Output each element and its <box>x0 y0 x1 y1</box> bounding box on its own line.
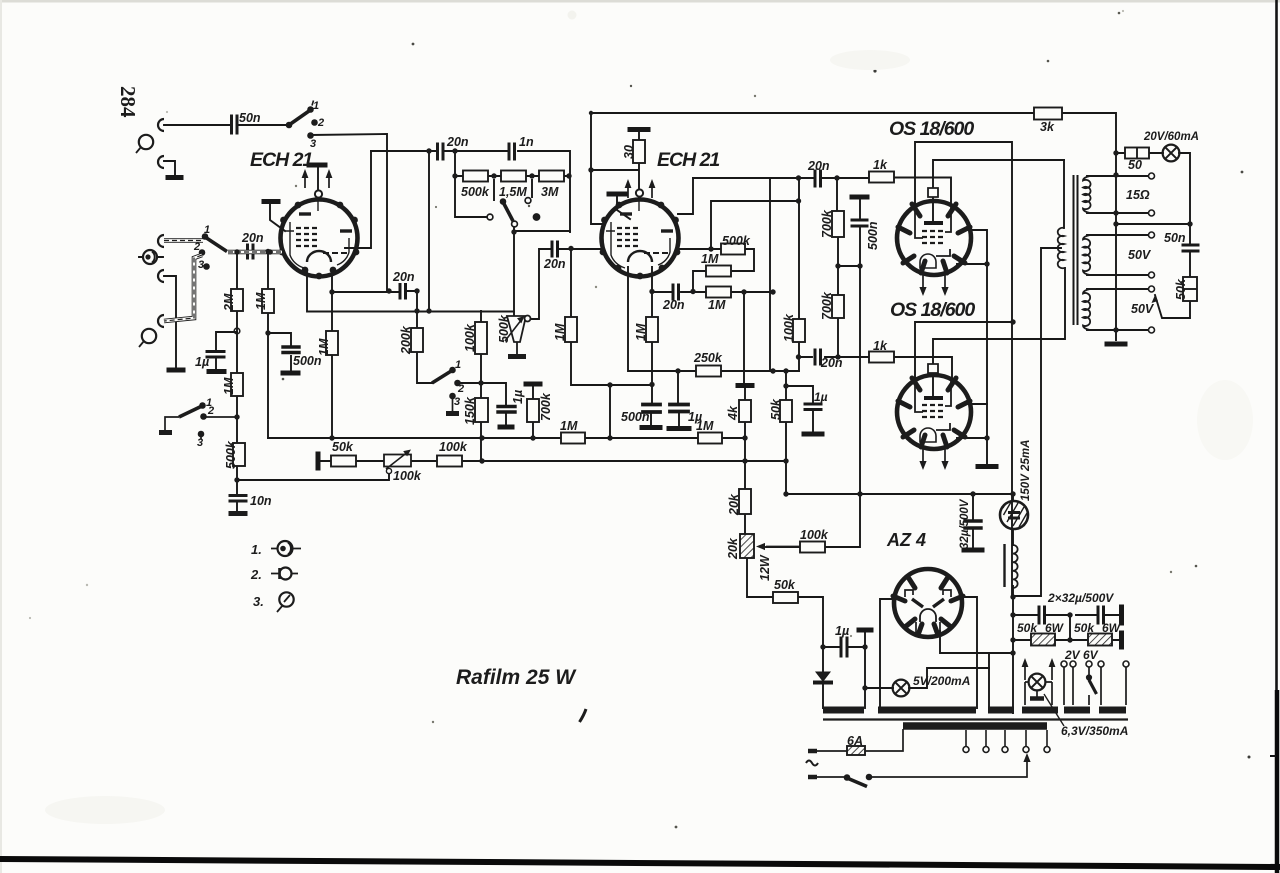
switch lower-left: arm <box>179 406 202 417</box>
transformer primary winding <box>1058 228 1064 268</box>
resistor 700k no2 <box>832 295 844 318</box>
svg-text:284: 284 <box>116 86 140 118</box>
wire x770 drop <box>769 178 771 371</box>
resistor 1M h2 <box>698 433 722 444</box>
tube ECH21 no2 pins <box>600 202 681 280</box>
svg-text:50: 50 <box>1128 158 1142 172</box>
wire x610 link and 1M x571 column <box>571 249 652 438</box>
legend symbol 3 lamp-jack <box>279 592 293 606</box>
node input column x237: 2M 1M 500k 10n chain <box>236 252 238 512</box>
junctions bias line y494 <box>783 491 788 496</box>
tube ECH21 no1 pins <box>279 202 360 280</box>
resistor 1M x652 <box>646 317 658 342</box>
svg-text:1,5M: 1,5M <box>499 185 527 199</box>
label AC tilde <box>806 761 818 766</box>
capacitor 20n-2 plates <box>815 350 821 364</box>
fuse 6A <box>847 746 865 755</box>
svg-text:30: 30 <box>622 145 636 159</box>
svg-text:20n: 20n <box>820 356 843 370</box>
svg-text:32µ/500V: 32µ/500V <box>959 498 971 549</box>
capacitor 50n top-left plates <box>232 116 238 133</box>
svg-text:1M: 1M <box>553 323 567 341</box>
ground jack3b <box>169 368 183 373</box>
resistor 1M x237 <box>231 373 243 396</box>
svg-text:6V: 6V <box>1083 648 1099 662</box>
wire OS2 right pins <box>957 404 987 438</box>
mains transformer winding bar <box>903 722 1047 730</box>
svg-text:6,3V/350mA: 6,3V/350mA <box>1061 724 1128 738</box>
junctions rectifier filament <box>820 644 825 649</box>
svg-text:50k: 50k <box>1074 621 1095 635</box>
wire AZ4 left plate drop <box>880 599 894 708</box>
svg-text:100k: 100k <box>393 469 422 483</box>
wire pickup stubs <box>139 256 163 258</box>
resistor 700k mid <box>527 399 539 422</box>
svg-text:20V/60mA: 20V/60mA <box>1143 131 1199 143</box>
ground 500k pot <box>508 354 526 359</box>
svg-text:250k: 250k <box>693 351 723 365</box>
wire switch box bottom y232 <box>514 227 570 316</box>
wire 4k to 20k chain <box>745 422 823 708</box>
tube AZ4 interior <box>905 590 951 633</box>
wire B+ choke column <box>1012 494 1014 713</box>
svg-text:2×32µ/500V: 2×32µ/500V <box>1047 591 1114 605</box>
resistor 500k ech2 <box>721 244 745 255</box>
resistor 1M cathode ech1 <box>326 331 338 355</box>
capacitor 1u-2 plates <box>670 405 688 412</box>
resistor 3M <box>539 171 564 182</box>
wire y292 row 20n-3 1M <box>652 291 773 293</box>
wire 100k-h row y547 <box>766 546 800 548</box>
resistor 100k x799 <box>793 319 805 342</box>
resistor 50 two-section <box>1125 148 1149 159</box>
wire x838 column 700k pair <box>837 178 838 357</box>
svg-text:2V: 2V <box>1064 648 1081 662</box>
wire OS2 grid 1k row handled above; primary lead <box>1063 160 1065 228</box>
wire row y438 left <box>268 437 745 439</box>
svg-text:3: 3 <box>198 259 204 271</box>
tube ECH21 no1 envelope <box>281 200 358 277</box>
wire x481 column 100k 150k <box>480 311 482 461</box>
svg-text:1µ: 1µ <box>835 624 849 638</box>
tube OS18 no1 interior <box>915 205 951 268</box>
svg-text:1M: 1M <box>701 252 719 266</box>
diode bar <box>815 681 831 685</box>
transformer core <box>1074 176 1078 324</box>
svg-text:1: 1 <box>204 224 210 236</box>
wire jack3b to ground lower <box>164 276 176 367</box>
svg-text:Rafilm 25 W: Rafilm 25 W <box>456 666 577 689</box>
lamp 6.3V/350mA <box>1029 674 1046 691</box>
wire ECH2 grid lead <box>617 196 630 219</box>
ballast resistor hatched circle <box>1000 501 1028 529</box>
wire ECH2 plate x693 to row y178 <box>678 178 693 214</box>
resistor 100k h mid <box>800 542 825 553</box>
svg-text:2: 2 <box>457 383 464 395</box>
wire heater terminals verticals <box>1064 667 1126 705</box>
wire ECH2 500k row y249 <box>678 249 754 292</box>
svg-text:OS 18/600: OS 18/600 <box>890 299 975 321</box>
terminal bar ECH1 grid left <box>264 199 278 204</box>
terminal bar bleeder right <box>1119 633 1124 647</box>
jack pickup symbol <box>143 250 157 264</box>
svg-text:20n: 20n <box>241 231 264 245</box>
capacitor 10n plates <box>230 496 246 502</box>
capacitor 500n-1 plates <box>643 405 660 413</box>
svg-text:6W: 6W <box>1045 621 1065 635</box>
switch heater panel: arm <box>1089 680 1097 694</box>
wire y480 to pot slider <box>237 474 389 480</box>
capacitor 20n-5 plates <box>438 144 444 159</box>
arrow to 50V tap <box>1152 295 1159 303</box>
transformer secondary 50V no2 <box>1083 289 1090 330</box>
plate bar OS1 <box>926 221 941 225</box>
tube OS18 no2 envelope <box>897 375 971 449</box>
terminal bar 4k top <box>738 383 752 388</box>
tap circles output transformer <box>1149 173 1155 179</box>
terminal mains stub 1 <box>808 749 817 754</box>
wire slider 500k pot to 20n cap to ECH2 <box>528 249 603 319</box>
jack arc 4 <box>158 315 164 327</box>
tube OS18 no1 envelope <box>897 201 971 275</box>
right page border <box>1275 0 1278 873</box>
diode rectifier <box>816 672 830 681</box>
tube OS18 no2 cathode arrows <box>923 445 945 465</box>
terminal mains stub 2 <box>808 775 817 780</box>
wire 700k mid stems <box>532 386 534 438</box>
wire 50n cap to switch <box>238 124 288 126</box>
svg-text:1µ: 1µ <box>688 410 702 424</box>
mains transformer taps <box>966 730 1047 746</box>
wire x652 column 1M 500n <box>651 267 652 426</box>
resistor 50k bottom-left <box>331 456 356 467</box>
svg-text:150k: 150k <box>463 396 477 425</box>
wire x417 column 20n-6 to 200k to switch row <box>417 291 506 426</box>
wire 1u-3 branch y386 <box>786 386 813 433</box>
wire 6.3V lamp row with arrows <box>1025 662 1052 705</box>
terminal bar under 6.3V lamp <box>1030 696 1044 701</box>
junctions ECH2 grid network <box>649 289 654 294</box>
terminal bar 32u <box>964 548 982 553</box>
svg-text:500k: 500k <box>722 234 751 248</box>
shielded cable jack3 to switch <box>164 238 203 243</box>
resistor 50k 6W no1 hatched <box>1031 634 1055 646</box>
svg-text:50k: 50k <box>1017 621 1038 635</box>
svg-text:4k: 4k <box>726 405 740 421</box>
svg-text:6W: 6W <box>1102 621 1122 635</box>
svg-text:200k: 200k <box>399 325 413 355</box>
tube OS18 no1 top cap <box>928 188 938 197</box>
tube AZ4 pins <box>893 577 963 635</box>
svg-text:20n: 20n <box>807 159 830 173</box>
terminal bar ECH2 grid <box>609 192 626 197</box>
svg-text:700k: 700k <box>539 392 553 421</box>
wire row y461 <box>320 460 786 462</box>
capacitor 2x32u plates <box>1039 607 1104 623</box>
capacitor 20n-3 plates <box>673 285 679 299</box>
terminal bar caps right <box>1119 607 1124 623</box>
wire top rail y113 <box>591 113 1116 340</box>
wire y266 link <box>838 265 860 267</box>
wire row y371 <box>628 267 799 371</box>
wire row y357 <box>799 357 952 381</box>
junctions OS driver rows <box>796 198 801 203</box>
svg-text:500n: 500n <box>621 410 650 424</box>
svg-text:100k: 100k <box>439 440 468 454</box>
terminal bar 500n-1 <box>642 425 660 430</box>
terminal bar 500n-2 top <box>852 195 867 200</box>
capacitor 1u left plates <box>207 352 224 358</box>
junctions AF divider rows <box>479 435 484 440</box>
svg-text:3.: 3. <box>253 594 264 609</box>
terminal bar 1u-3 <box>804 432 822 437</box>
plate bar OS2 <box>926 396 941 400</box>
junctions ECH2 plate supply <box>588 167 593 172</box>
terminal bar 1u mid <box>500 425 512 430</box>
resistor 1.5M <box>501 171 526 182</box>
svg-text:1M: 1M <box>222 377 236 395</box>
capacitor 20n-7 plates <box>552 242 558 256</box>
svg-text:50k: 50k <box>1174 278 1188 300</box>
svg-text:3: 3 <box>197 437 203 449</box>
junctions B+ rail <box>1010 594 1015 599</box>
junctions input stage <box>234 249 239 254</box>
capacitor 50n right plates <box>1183 245 1198 251</box>
tube AZ4 envelope <box>894 569 962 637</box>
wire y170 to 30 ohm resistor <box>591 131 639 189</box>
svg-text:50V: 50V <box>1128 248 1152 262</box>
wire 50 resistor row <box>1116 153 1190 318</box>
resistor 100k bottom-left <box>437 456 462 467</box>
svg-text:20n: 20n <box>543 257 566 271</box>
rheostat 20k 12W hatched <box>740 534 754 558</box>
ground OS tubes <box>978 464 996 469</box>
wire bleeder row y640 <box>1013 615 1121 640</box>
capacitor 1u-h plates <box>841 638 847 656</box>
wire y201 screen link <box>711 201 799 249</box>
svg-text:1n: 1n <box>519 135 534 149</box>
wire OS2 pin row y322 <box>915 322 1013 379</box>
resistor 500k top row <box>463 171 488 182</box>
potentiometer 500k triangle <box>507 316 526 342</box>
terminal bar x865 <box>859 628 871 633</box>
svg-text:ECH 21: ECH 21 <box>250 149 312 171</box>
tube ECH21 no2 interior <box>606 199 673 268</box>
svg-text:1µ: 1µ <box>814 390 828 404</box>
svg-text:10n: 10n <box>250 494 272 508</box>
leader line 6.3V label <box>1044 694 1064 726</box>
resistor 30 ohm <box>633 140 645 163</box>
resistor 250k <box>696 366 721 377</box>
legend symbol 2 jack <box>280 568 292 580</box>
jack circle with tail lower <box>142 329 156 343</box>
svg-text:1µ: 1µ <box>511 390 525 404</box>
resistor 50k vertical two-section <box>1183 277 1197 301</box>
ground jack2 <box>168 175 181 180</box>
junctions tone filter <box>452 148 457 153</box>
terminal bar row y461 <box>316 454 321 468</box>
svg-text:50n: 50n <box>1164 231 1186 245</box>
resistor 3k <box>1034 108 1062 120</box>
capacitor 1u mid plates <box>498 407 515 413</box>
wire x268 column: 1M to y438 row, 500n branch <box>268 252 291 438</box>
jack arc 3 <box>158 235 164 247</box>
transformer secondary 15ohm <box>1083 176 1091 213</box>
svg-text:AZ 4: AZ 4 <box>886 530 926 550</box>
wire x429 drop <box>428 151 430 311</box>
resistor 1M p1 <box>706 266 731 277</box>
resistor 500k x237 <box>233 443 245 466</box>
svg-text:3M: 3M <box>541 185 559 199</box>
switch input: arm <box>205 237 227 252</box>
svg-text:15Ω: 15Ω <box>1126 188 1150 202</box>
lamp 20V/60mA <box>1163 145 1180 162</box>
wire jack2 to ground <box>164 161 175 176</box>
wire OS1 pin to B+ rail x1012 <box>915 142 1012 597</box>
resistor 50k h2 <box>773 592 798 603</box>
wire 5V lamp row <box>865 668 989 688</box>
resistor 2M <box>231 289 243 311</box>
junctions output transformer centre <box>1113 150 1118 155</box>
wire OS2 top cap y339 <box>933 268 1065 396</box>
jack circle with tail <box>139 135 153 149</box>
svg-text:12W: 12W <box>758 554 772 581</box>
wire x786 50k column to y494 <box>786 371 1013 494</box>
switch band top: arm <box>312 101 314 106</box>
wire mains live via fuse <box>816 729 903 751</box>
label apostrophe mark <box>580 709 587 722</box>
svg-text:50n: 50n <box>239 111 261 125</box>
terminal circles 2V 6V row <box>1061 661 1067 667</box>
svg-text:5V/200mA: 5V/200mA <box>913 674 970 688</box>
tube ECH21 no2 envelope <box>602 200 679 277</box>
svg-text:1.: 1. <box>251 542 262 557</box>
transformer secondary 50V no1 <box>1083 235 1090 275</box>
lamp 5V/200mA <box>893 680 910 697</box>
wire x371 ECH1 plate drop <box>345 151 371 248</box>
terminal bar 1u left <box>209 369 224 374</box>
switch mid: arm <box>432 371 452 384</box>
svg-text:20n: 20n <box>446 135 469 149</box>
svg-text:2: 2 <box>317 117 324 129</box>
svg-text:20n: 20n <box>662 298 685 312</box>
svg-text:1M: 1M <box>634 323 648 341</box>
resistor 1M x571 <box>565 317 577 342</box>
wire primary centre tap to B+ <box>1013 248 1061 596</box>
capacitor 20n-1 plates <box>815 171 821 186</box>
wire 50k to diode node <box>823 646 865 648</box>
svg-text:50V: 50V <box>1131 302 1155 316</box>
wire switch pin3 to grid bus, down at x387 <box>311 134 387 291</box>
wire row y151 <box>371 151 570 232</box>
wire ECH1 pin x332 with 1M to row y438 <box>331 271 333 438</box>
terminal circle x237 <box>234 328 240 334</box>
terminal bar 500n-3 <box>283 371 298 376</box>
svg-text:1k: 1k <box>873 158 888 172</box>
svg-text:20n: 20n <box>392 270 415 284</box>
svg-text:1M: 1M <box>254 292 268 310</box>
tube ECH21 no1 interior <box>285 199 352 268</box>
wire AZ4 right plate drop <box>959 597 977 708</box>
svg-text:2M: 2M <box>222 293 236 312</box>
svg-text:500n: 500n <box>866 221 880 250</box>
wire OS1 top cap <box>933 160 1064 221</box>
svg-text:20k: 20k <box>727 493 741 516</box>
svg-text:1k: 1k <box>873 339 888 353</box>
svg-text:2.: 2. <box>250 567 262 582</box>
svg-text:ECH 21: ECH 21 <box>657 149 719 171</box>
capacitor 500n-3 plates <box>283 347 299 353</box>
svg-text:1: 1 <box>313 100 319 112</box>
svg-text:20k: 20k <box>726 537 740 560</box>
svg-text:2: 2 <box>193 241 200 253</box>
chassis bus bar segments <box>823 707 1126 714</box>
svg-text:700k: 700k <box>820 291 834 320</box>
wire ECH1 pin x297 to row y311 <box>307 271 514 312</box>
tube OS18 no1 pins <box>898 204 970 273</box>
shielded cable switch to ECH1 grid <box>228 250 282 255</box>
resistor 100k x481 <box>475 322 487 354</box>
svg-text:1µ: 1µ <box>195 355 209 369</box>
wire 1.5M switch stubs <box>494 180 532 200</box>
tube ECH21 no2 arrows <box>628 183 652 198</box>
svg-text:1M: 1M <box>560 419 578 433</box>
svg-text:3k: 3k <box>1040 120 1055 134</box>
resistor 50k x786 <box>780 400 792 422</box>
terminal bar 30 ohm top <box>630 127 648 132</box>
tube ECH21 no1 arrows <box>305 173 329 188</box>
wire x865 drop <box>864 631 866 708</box>
svg-text:3: 3 <box>310 138 316 150</box>
switch mains: arm <box>847 778 867 787</box>
svg-text:1M: 1M <box>708 298 726 312</box>
capacitor 1n plates <box>509 144 515 159</box>
legend symbol 1 pickup <box>278 541 293 556</box>
jack arc 2 <box>158 156 164 168</box>
svg-text:50k: 50k <box>332 440 354 454</box>
resistor 4k <box>739 400 751 422</box>
wire 1u left cap branch <box>216 332 237 370</box>
resistor 50k 6W no2 hatched <box>1088 634 1112 646</box>
wire OS1 right pins <box>957 230 987 466</box>
terminal bar 700k mid top <box>526 382 540 387</box>
resistor 200k x417 <box>411 328 423 352</box>
smoothing choke <box>1013 545 1018 588</box>
capacitor 20n-6 plates <box>400 285 406 299</box>
svg-text:700k: 700k <box>820 209 834 238</box>
wire ECH1 grid lead <box>270 204 285 231</box>
wire x744 grid drop to 4k <box>744 292 745 400</box>
svg-text:6A: 6A <box>847 734 863 748</box>
wire resistor row y176 <box>455 175 570 177</box>
jack arc 3b <box>158 270 164 282</box>
wire ECH1 top cap stem <box>317 167 319 190</box>
tube OS18 no2 interior <box>915 379 951 442</box>
svg-text:500k: 500k <box>461 185 490 199</box>
switch tone selector: pivot and contacts <box>500 199 506 205</box>
terminal bar 10n <box>231 511 245 516</box>
chassis bus line <box>823 718 1128 720</box>
wire x860 500n-2 column <box>825 197 860 547</box>
resistor 1k no1 <box>869 172 894 183</box>
svg-text:1M: 1M <box>317 338 331 356</box>
wire row y178 <box>693 178 951 206</box>
resistor 700k no1 <box>832 211 844 237</box>
resistor 1k no2 <box>869 352 894 363</box>
svg-text:100k: 100k <box>463 323 477 352</box>
terminal bar ECH1 top <box>309 163 325 168</box>
wire mains switch to tap arrow <box>817 757 1027 777</box>
